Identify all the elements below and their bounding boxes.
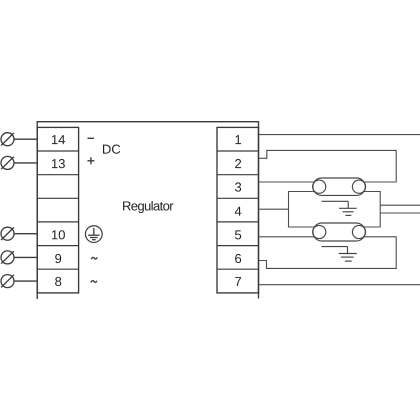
label DC xyxy=(103,145,120,154)
screw terminal 13 xyxy=(1,156,14,169)
terminal number 3 xyxy=(235,182,241,191)
plus sign xyxy=(87,157,94,164)
tilde 9 xyxy=(91,257,97,259)
screw terminal 10 xyxy=(1,227,14,240)
wire screw to terminal 14 xyxy=(14,138,38,140)
wire terminal 1 xyxy=(259,134,420,136)
wire screw to terminal 13 xyxy=(14,162,38,164)
wire terminal 3 to lamp1 left top pin xyxy=(259,181,315,183)
wire lamp1 left bottom pin to lamp2 left top pin xyxy=(289,192,315,228)
terminal number 9 xyxy=(55,254,61,263)
label Regulator xyxy=(123,201,173,213)
minus sign xyxy=(88,137,95,139)
lamp 2 ground xyxy=(321,247,356,262)
screw terminal 9 xyxy=(1,251,14,264)
wire common branch upper to edge xyxy=(380,204,420,206)
lamp 1 ground xyxy=(322,201,357,215)
screw terminal 8 xyxy=(1,275,14,288)
terminal number 8 xyxy=(55,277,61,286)
terminal number 5 xyxy=(235,230,241,239)
terminal number 7 xyxy=(235,277,241,286)
screw terminal 14 xyxy=(1,133,14,146)
lamp 2 tube xyxy=(313,223,366,241)
lamp 1 tube xyxy=(313,178,366,195)
wire screw to terminal 8 xyxy=(14,280,38,282)
wire terminal 2 to lamp1 right top pin xyxy=(259,150,397,182)
wire screw to terminal 9 xyxy=(14,256,38,258)
protective earth symbol xyxy=(85,226,102,243)
wire common branch lower to edge xyxy=(380,212,420,214)
right terminal strip xyxy=(217,127,259,293)
wire terminal 6 to lamp2 right bottom pin xyxy=(259,237,397,269)
terminal number 6 xyxy=(235,254,241,263)
terminal number 13 xyxy=(52,159,65,168)
regulator box xyxy=(37,122,258,299)
wire terminal 5 to lamp2 left bottom pin xyxy=(259,236,315,238)
terminal number 14 xyxy=(52,135,65,144)
wire screw to terminal 10 xyxy=(14,233,38,235)
wire terminal 4 junction xyxy=(259,208,289,210)
terminal number 1 xyxy=(235,135,241,144)
left terminal strip xyxy=(37,127,78,293)
terminal number 10 xyxy=(52,230,65,239)
terminal number 2 xyxy=(235,159,241,168)
terminal number 4 xyxy=(235,207,242,216)
wire common node lamp right pins xyxy=(364,192,381,228)
wire terminal 7 xyxy=(259,284,420,286)
tilde 8 xyxy=(91,281,97,283)
